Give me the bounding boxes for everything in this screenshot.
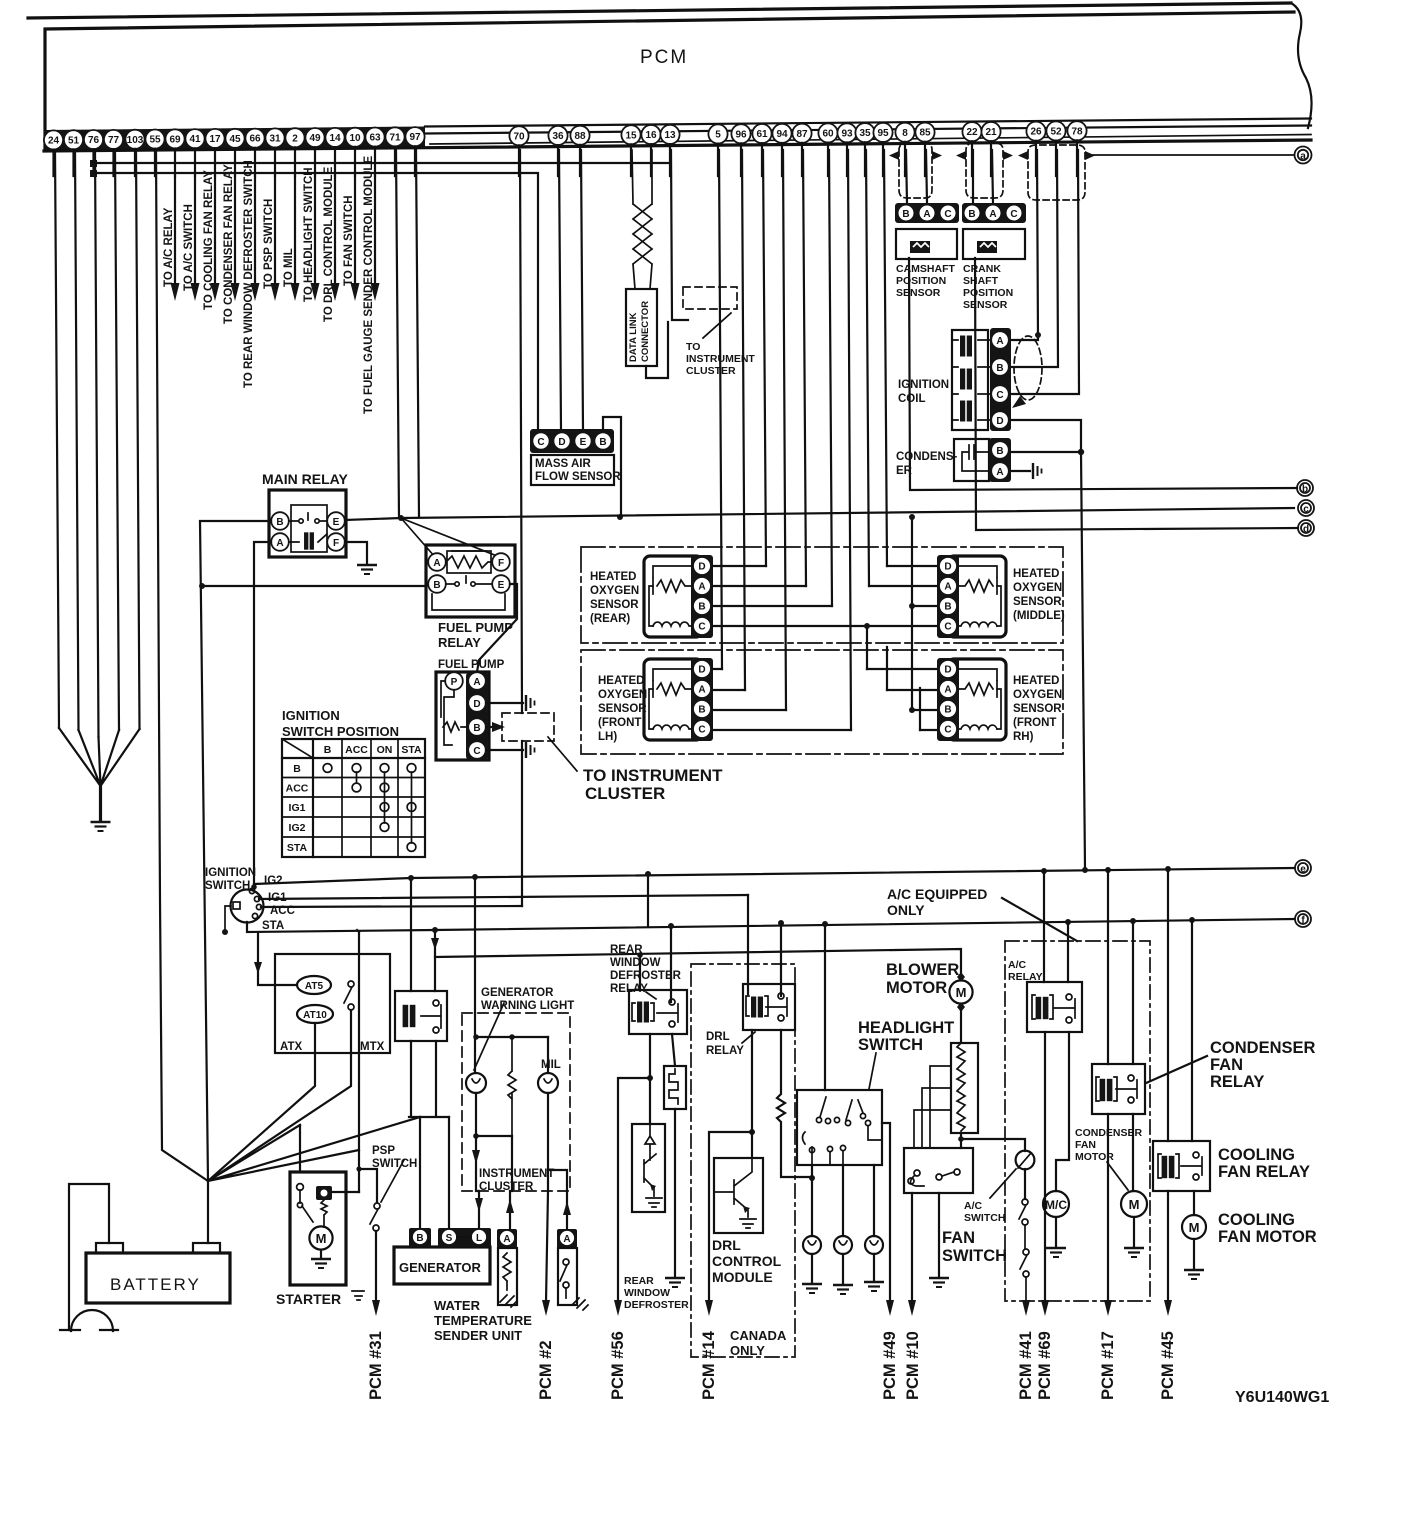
svg-text:ONLY: ONLY xyxy=(730,1343,765,1358)
svg-text:26: 26 xyxy=(1030,127,1042,138)
svg-text:COOLING: COOLING xyxy=(1218,1211,1295,1229)
svg-text:TEMPERATURE: TEMPERATURE xyxy=(434,1313,532,1328)
svg-text:WATER: WATER xyxy=(434,1298,481,1313)
svg-text:BLOWER: BLOWER xyxy=(886,961,959,979)
svg-text:CONTROL: CONTROL xyxy=(712,1253,782,1269)
svg-text:IGNITION: IGNITION xyxy=(282,708,340,723)
svg-text:M: M xyxy=(1129,1197,1140,1212)
svg-text:B: B xyxy=(416,1233,423,1244)
svg-text:GENERATOR: GENERATOR xyxy=(399,1260,481,1275)
svg-text:D: D xyxy=(996,416,1003,427)
svg-text:A: A xyxy=(989,209,996,220)
drop to RWD relay contact xyxy=(670,926,672,1002)
svg-text:WARNING LIGHT: WARNING LIGHT xyxy=(481,1000,574,1012)
svg-text:MTX: MTX xyxy=(360,1041,385,1053)
svg-text:A: A xyxy=(563,1234,570,1245)
camshaft connector xyxy=(895,203,959,223)
svg-text:GENERATOR: GENERATOR xyxy=(481,987,554,999)
svg-text:L: L xyxy=(476,1233,482,1244)
svg-text:TO DRL CONTROL MODULE: TO DRL CONTROL MODULE xyxy=(323,166,335,322)
svg-text:70: 70 xyxy=(513,131,525,142)
svg-text:RELAY: RELAY xyxy=(706,1045,744,1057)
svg-text:SWITCH: SWITCH xyxy=(858,1036,923,1054)
svg-text:2: 2 xyxy=(292,133,298,144)
svg-text:IG2: IG2 xyxy=(289,822,306,834)
svg-text:PCM #14: PCM #14 xyxy=(700,1330,718,1400)
svg-text:D: D xyxy=(473,699,480,710)
FP C to cap xyxy=(486,749,523,751)
svg-text:ER: ER xyxy=(896,465,913,477)
svg-text:C: C xyxy=(473,746,480,757)
svg-text:RELAY: RELAY xyxy=(438,635,481,650)
svg-text:HEATED: HEATED xyxy=(598,675,644,687)
IG1 drop to DRL relay coil xyxy=(747,895,749,994)
blower resistor xyxy=(951,1043,978,1133)
svg-text:TO MIL: TO MIL xyxy=(283,248,295,287)
svg-text:TO FAN SWITCH: TO FAN SWITCH xyxy=(343,195,355,286)
shield capsule pins 8/85 xyxy=(899,143,932,198)
main relay E line to (c) xyxy=(345,508,1294,520)
svg-text:BATTERY: BATTERY xyxy=(110,1275,201,1294)
svg-text:PCM #45: PCM #45 xyxy=(1159,1331,1177,1400)
svg-text:A: A xyxy=(698,685,705,696)
e-line drops to shift relay xyxy=(409,878,449,1117)
STA wire to starter S xyxy=(357,930,359,1192)
svg-text:ONLY: ONLY xyxy=(887,902,925,918)
IG2 bus wire to node e xyxy=(254,868,1294,884)
svg-text:36: 36 xyxy=(552,131,564,142)
svg-text:FAN: FAN xyxy=(1075,1139,1096,1151)
svg-text:45: 45 xyxy=(229,134,241,145)
svg-text:WINDOW: WINDOW xyxy=(624,1287,670,1299)
dashed ellipse shield on coil wires xyxy=(1014,336,1042,400)
svg-text:ACC: ACC xyxy=(345,744,368,756)
svg-text:D: D xyxy=(944,665,951,676)
wire node d from crank sensor shield xyxy=(975,258,1298,530)
svg-text:IG2: IG2 xyxy=(264,875,283,887)
svg-text:51: 51 xyxy=(68,135,80,146)
svg-text:66: 66 xyxy=(249,134,261,145)
svg-text:DRL: DRL xyxy=(706,1031,730,1043)
svg-text:COIL: COIL xyxy=(898,393,925,405)
wire bus1 under band xyxy=(94,162,669,164)
svg-text:B: B xyxy=(698,602,705,613)
coil D to condenser junction xyxy=(1012,420,1081,452)
svg-text:C: C xyxy=(698,725,705,736)
e f node circles xyxy=(1295,860,1311,876)
svg-text:SWITCH POSITION: SWITCH POSITION xyxy=(282,724,399,739)
svg-text:(FRONT: (FRONT xyxy=(598,717,641,729)
svg-text:OXYGEN: OXYGEN xyxy=(590,585,639,597)
svg-text:C: C xyxy=(996,390,1003,401)
svg-text:97: 97 xyxy=(409,132,421,143)
drop to DRL relay contact xyxy=(780,923,782,996)
svg-text:A/C: A/C xyxy=(1008,959,1027,971)
svg-text:OXYGEN: OXYGEN xyxy=(1013,689,1062,701)
svg-text:c: c xyxy=(1303,504,1309,515)
svg-text:69: 69 xyxy=(169,134,181,145)
mass air flow sensor label box xyxy=(531,455,614,485)
svg-text:WINDOW: WINDOW xyxy=(610,957,661,969)
FPR E to fuel pump A xyxy=(477,584,517,672)
f drop to condenser fan relay contact xyxy=(1132,921,1134,1064)
svg-text:CONDENSER: CONDENSER xyxy=(1210,1039,1316,1057)
svg-text:HEADLIGHT: HEADLIGHT xyxy=(858,1019,954,1037)
svg-text:A: A xyxy=(944,582,951,593)
data link connector box xyxy=(626,289,657,366)
HO2S pin connection wires left xyxy=(713,566,867,730)
svg-text:Y6U140WG1: Y6U140WG1 xyxy=(1235,1389,1329,1406)
svg-text:POSITION: POSITION xyxy=(896,275,946,287)
svg-text:C: C xyxy=(698,622,705,633)
svg-text:a: a xyxy=(1300,151,1306,162)
svg-text:b: b xyxy=(1302,484,1308,495)
svg-text:SENSOR: SENSOR xyxy=(963,299,1008,311)
svg-text:FAN: FAN xyxy=(942,1229,975,1247)
node a line xyxy=(1087,154,1294,156)
battery node fan wires xyxy=(208,1117,420,1181)
svg-text:DRL: DRL xyxy=(712,1237,741,1253)
svg-text:103: 103 xyxy=(127,135,144,146)
svg-text:TO HEADLIGHT SWITCH: TO HEADLIGHT SWITCH xyxy=(303,167,315,302)
svg-text:ACC: ACC xyxy=(286,783,309,795)
svg-text:52: 52 xyxy=(1050,127,1062,138)
PCM connector pin row xyxy=(44,130,63,149)
main relay box xyxy=(269,490,346,557)
pin band: left solid part xyxy=(44,127,425,152)
svg-text:60: 60 xyxy=(822,129,834,140)
svg-text:78: 78 xyxy=(1071,126,1083,137)
svg-text:CONDENS-: CONDENS- xyxy=(896,451,958,463)
svg-text:FUEL PUMP: FUEL PUMP xyxy=(438,620,513,635)
svg-text:IGNITION: IGNITION xyxy=(205,867,256,879)
svg-text:SENSOR: SENSOR xyxy=(1013,596,1062,608)
svg-text:17: 17 xyxy=(209,134,221,145)
MAF B wire up-over-down to main relay bus xyxy=(603,417,621,517)
svg-text:B: B xyxy=(473,723,480,734)
camshaft body xyxy=(896,229,957,259)
svg-text:61: 61 xyxy=(756,129,768,140)
svg-text:d: d xyxy=(1303,524,1309,535)
svg-text:55: 55 xyxy=(149,135,161,146)
svg-text:DEFROSTER: DEFROSTER xyxy=(624,1299,689,1311)
svg-text:FAN RELAY: FAN RELAY xyxy=(1218,1163,1310,1181)
svg-text:DEFROSTER: DEFROSTER xyxy=(610,970,682,982)
small relay right of ATX xyxy=(395,991,447,1041)
crank connector xyxy=(962,203,1026,223)
svg-text:MOTOR: MOTOR xyxy=(886,979,947,997)
ACC line from dashed box down xyxy=(521,741,523,906)
svg-text:93: 93 xyxy=(841,128,853,139)
svg-text:14: 14 xyxy=(329,133,341,144)
svg-text:REAR: REAR xyxy=(624,1275,654,1287)
svg-text:MIL: MIL xyxy=(541,1059,561,1071)
svg-text:A: A xyxy=(503,1234,510,1245)
battery negative lead xyxy=(69,1184,109,1330)
svg-text:TO: TO xyxy=(686,341,700,353)
FPR contact xyxy=(446,576,492,584)
main relay A feed down to ignition switch xyxy=(254,542,271,889)
wire pin 13 to instrument cluster xyxy=(671,150,688,320)
wire pin 70 down xyxy=(520,150,522,713)
svg-text:CRANK: CRANK xyxy=(963,263,1001,275)
main relay F to ground xyxy=(345,542,367,563)
svg-text:13: 13 xyxy=(664,130,676,141)
svg-text:TO A/C RELAY: TO A/C RELAY xyxy=(163,207,175,287)
svg-text:A: A xyxy=(923,209,930,220)
svg-text:FUEL PUMP: FUEL PUMP xyxy=(438,659,505,671)
crank body xyxy=(963,229,1025,259)
ground strap arc xyxy=(71,1310,113,1331)
svg-text:LH): LH) xyxy=(598,731,617,743)
FP D to cap xyxy=(486,702,523,704)
svg-text:ATX: ATX xyxy=(280,1041,302,1053)
wires pins 36,88 to MAF xyxy=(559,150,583,430)
svg-text:A/C: A/C xyxy=(964,1200,983,1212)
svg-text:B: B xyxy=(599,437,606,448)
ACC bus wire xyxy=(261,906,522,907)
bus junction squares on pin 76 wire xyxy=(90,160,97,167)
svg-text:MODULE: MODULE xyxy=(712,1269,773,1285)
svg-text:24: 24 xyxy=(48,136,60,147)
svg-text:INSTRUMENT: INSTRUMENT xyxy=(479,1168,554,1180)
svg-text:M: M xyxy=(1189,1220,1200,1235)
svg-text:CLUSTER: CLUSTER xyxy=(479,1181,534,1193)
svg-text:MOTOR: MOTOR xyxy=(1075,1151,1114,1163)
svg-text:22: 22 xyxy=(966,127,978,138)
svg-text:OXYGEN: OXYGEN xyxy=(598,689,647,701)
svg-text:SENSOR: SENSOR xyxy=(590,599,639,611)
svg-text:(REAR): (REAR) xyxy=(590,613,630,625)
svg-text:COOLING: COOLING xyxy=(1218,1146,1295,1164)
svg-text:STA: STA xyxy=(262,920,284,932)
svg-text:41: 41 xyxy=(189,134,201,145)
coil connector xyxy=(990,328,1011,431)
svg-text:B: B xyxy=(996,363,1003,374)
main relay coil xyxy=(304,532,314,549)
svg-text:C: C xyxy=(537,437,544,448)
dots on f line xyxy=(1065,919,1071,925)
svg-text:TO CONDENSER FAN RELAY: TO CONDENSER FAN RELAY xyxy=(223,164,235,324)
svg-text:PCM #10: PCM #10 xyxy=(904,1331,922,1400)
svg-text:31: 31 xyxy=(269,134,281,145)
svg-text:B: B xyxy=(968,209,975,220)
svg-text:C: C xyxy=(1010,209,1017,220)
svg-text:87: 87 xyxy=(796,129,808,140)
shield capsule pins 22/21 xyxy=(966,143,1003,198)
svg-text:(MIDDLE): (MIDDLE) xyxy=(1013,610,1065,622)
svg-text:PSP: PSP xyxy=(372,1145,395,1157)
svg-text:B: B xyxy=(944,602,951,613)
svg-text:C: C xyxy=(944,622,951,633)
junction dot coil A xyxy=(1035,332,1041,338)
svg-text:B: B xyxy=(433,580,440,591)
svg-text:A: A xyxy=(276,538,283,549)
svg-text:D: D xyxy=(698,665,705,676)
svg-text:FAN: FAN xyxy=(1210,1056,1243,1074)
svg-text:AT10: AT10 xyxy=(303,1010,327,1021)
bus wire to blower motor xyxy=(435,949,961,977)
defroster grid xyxy=(672,1034,675,1066)
svg-text:D: D xyxy=(558,437,565,448)
mass air flow sensor connector xyxy=(530,429,614,453)
svg-text:TO PSP SWITCH: TO PSP SWITCH xyxy=(263,199,275,289)
TO INSTRUMENT CLUSTER small dashed box xyxy=(683,287,737,309)
diagonals to fuel pump relay xyxy=(401,518,497,557)
HO2S heater tie verticals xyxy=(867,517,920,730)
wires pins 71,97 to main relay bus xyxy=(396,150,419,518)
data link twisted pair from 15,16 xyxy=(632,150,652,289)
svg-text:CLUSTER: CLUSTER xyxy=(585,784,665,803)
wires pins 24,51,76,77,103,55 down xyxy=(55,150,208,1181)
ground fan wires xyxy=(59,728,140,786)
TO-x arrows xyxy=(175,176,375,287)
svg-text:SENDER UNIT: SENDER UNIT xyxy=(434,1328,522,1343)
svg-text:M: M xyxy=(316,1231,327,1246)
svg-text:E: E xyxy=(333,517,340,528)
svg-text:95: 95 xyxy=(877,128,889,139)
svg-text:CANADA: CANADA xyxy=(730,1328,787,1343)
node a xyxy=(1295,147,1312,164)
svg-text:B: B xyxy=(324,744,332,756)
svg-text:CLUSTER: CLUSTER xyxy=(686,365,736,377)
svg-text:SWITCH: SWITCH xyxy=(372,1158,417,1170)
page top border line xyxy=(28,3,1291,18)
svg-text:A: A xyxy=(433,558,440,569)
svg-text:10: 10 xyxy=(349,133,361,144)
svg-text:CONNECTOR: CONNECTOR xyxy=(640,301,651,362)
svg-text:A: A xyxy=(473,677,480,688)
svg-text:77: 77 xyxy=(108,135,120,146)
svg-text:PCM #41: PCM #41 xyxy=(1017,1331,1035,1400)
svg-text:A/C EQUIPPED: A/C EQUIPPED xyxy=(887,886,987,902)
FPR coil zigzag xyxy=(446,556,492,568)
svg-text:CAMSHAFT: CAMSHAFT xyxy=(896,263,955,275)
svg-text:HEATED: HEATED xyxy=(1013,675,1059,687)
svg-text:PCM #56: PCM #56 xyxy=(609,1331,627,1400)
svg-text:D: D xyxy=(944,562,951,573)
FPR B line xyxy=(203,585,426,587)
svg-text:E: E xyxy=(580,437,587,448)
torn right edge xyxy=(1291,3,1312,128)
svg-text:e: e xyxy=(1300,864,1306,875)
svg-text:F: F xyxy=(333,538,339,549)
e drop to cooling fan relay coil xyxy=(1167,869,1169,1141)
svg-text:A: A xyxy=(996,336,1003,347)
svg-text:B: B xyxy=(902,209,909,220)
svg-text:76: 76 xyxy=(88,135,100,146)
STA bus wire to node f xyxy=(247,919,1294,932)
svg-text:A: A xyxy=(944,685,951,696)
svg-text:PCM #31: PCM #31 xyxy=(367,1331,385,1400)
svg-text:M/C: M/C xyxy=(1045,1198,1067,1212)
svg-text:OXYGEN: OXYGEN xyxy=(1013,582,1062,594)
svg-text:S: S xyxy=(446,1233,453,1244)
svg-text:C: C xyxy=(944,209,951,220)
svg-text:(FRONT: (FRONT xyxy=(1013,717,1056,729)
STA drop to small relay xyxy=(432,927,438,933)
svg-text:85: 85 xyxy=(919,128,931,139)
svg-text:STA: STA xyxy=(401,744,422,756)
DRL contact bottom resistor to lamps xyxy=(777,1030,812,1177)
svg-text:21: 21 xyxy=(985,127,997,138)
svg-text:SENSOR: SENSOR xyxy=(598,703,647,715)
svg-text:RH): RH) xyxy=(1013,731,1034,743)
svg-text:MASS AIR: MASS AIR xyxy=(535,458,591,470)
svg-text:5: 5 xyxy=(715,130,721,141)
drop to instrument cluster xyxy=(474,877,476,1013)
svg-text:94: 94 xyxy=(776,129,788,140)
wire bus2 to MAF C xyxy=(94,173,539,430)
svg-text:63: 63 xyxy=(369,133,381,144)
svg-text:PCM #2: PCM #2 xyxy=(537,1340,555,1400)
HO2S box1 (rear+middle) xyxy=(581,547,1063,643)
svg-text:TO REAR WINDOW DEFROSTER SWITC: TO REAR WINDOW DEFROSTER SWITCH xyxy=(243,160,255,388)
e drop to condenser fan relay coil xyxy=(1107,870,1109,1064)
svg-text:FLOW SENSOR: FLOW SENSOR xyxy=(535,471,621,483)
IG1 bus wire xyxy=(259,895,748,899)
svg-text:STA: STA xyxy=(287,842,308,854)
HO2S pin connection wires right xyxy=(867,566,936,730)
svg-text:A: A xyxy=(698,582,705,593)
svg-text:35: 35 xyxy=(859,128,871,139)
svg-text:15: 15 xyxy=(625,130,637,141)
svg-text:POSITION: POSITION xyxy=(963,287,1013,299)
svg-text:TO INSTRUMENT: TO INSTRUMENT xyxy=(583,766,723,785)
svg-text:P: P xyxy=(451,677,458,688)
svg-text:SWITCH: SWITCH xyxy=(942,1247,1007,1265)
svg-text:AT5: AT5 xyxy=(305,981,324,992)
shield capsule pins 26/52/78 xyxy=(1028,145,1085,200)
svg-text:PCM #17: PCM #17 xyxy=(1099,1331,1117,1400)
svg-text:RELAY: RELAY xyxy=(1210,1073,1264,1091)
fan ground stem xyxy=(99,784,102,820)
tie wire e to f bus xyxy=(647,874,649,926)
pin band: right lines xyxy=(425,119,1311,127)
f drop to A/C relay contact xyxy=(1067,922,1069,982)
svg-text:B: B xyxy=(996,446,1003,457)
svg-text:8: 8 xyxy=(902,128,908,139)
transistor branch xyxy=(649,1034,651,1124)
svg-text:B: B xyxy=(944,705,951,716)
svg-text:SENSOR: SENSOR xyxy=(1013,703,1062,715)
main relay contact xyxy=(289,513,327,521)
svg-text:M: M xyxy=(956,985,967,1000)
FP internals xyxy=(441,681,468,745)
svg-text:FAN MOTOR: FAN MOTOR xyxy=(1218,1228,1317,1246)
svg-text:DATA LINK: DATA LINK xyxy=(628,312,639,362)
wires pins 26,52,78 to ignition coil xyxy=(1012,150,1079,394)
wires pins 8,85,22,21 to position sensors xyxy=(906,150,993,203)
HO2S box2 (front lh+rh) xyxy=(581,650,1063,754)
svg-text:HEATED: HEATED xyxy=(1013,568,1059,580)
svg-text:MAIN RELAY: MAIN RELAY xyxy=(262,471,348,487)
svg-text:PCM #69: PCM #69 xyxy=(1036,1331,1054,1400)
svg-text:HEATED: HEATED xyxy=(590,571,636,583)
svg-text:B: B xyxy=(293,763,301,775)
svg-text:D: D xyxy=(698,562,705,573)
svg-text:PCM #49: PCM #49 xyxy=(881,1331,899,1400)
drop to headlight switch xyxy=(824,924,826,1090)
svg-text:STARTER: STARTER xyxy=(276,1291,341,1307)
lamps xyxy=(812,1165,874,1236)
coil body xyxy=(952,330,988,430)
svg-text:SWITCH: SWITCH xyxy=(964,1212,1005,1224)
svg-text:F: F xyxy=(498,558,504,569)
svg-text:A: A xyxy=(996,467,1003,478)
svg-text:SHAFT: SHAFT xyxy=(963,275,999,287)
wire node b from camshaft sensor shield xyxy=(909,258,1297,490)
